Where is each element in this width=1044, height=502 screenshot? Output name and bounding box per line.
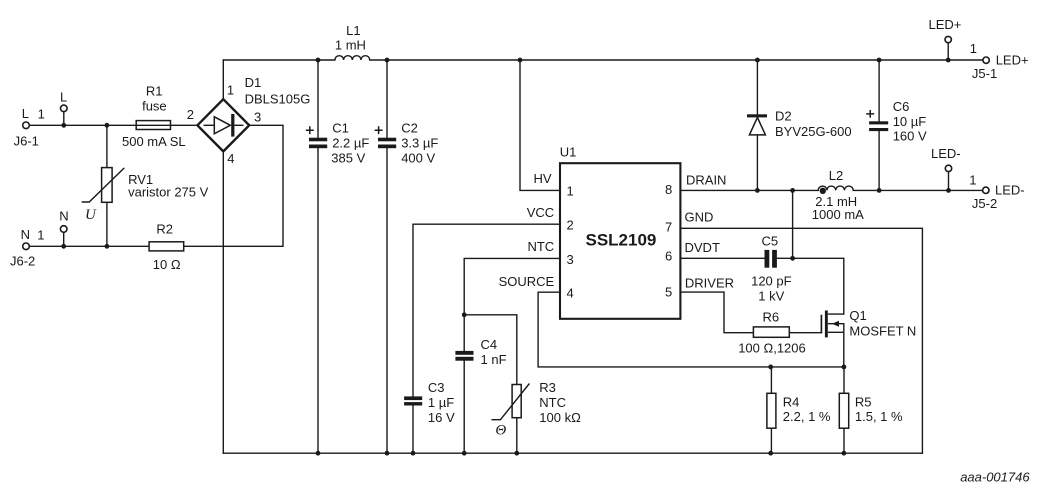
wire: bridge pin4 down to bottom rail [222, 151, 224, 453]
resistor R5 [839, 393, 903, 428]
wire: upper L node drop [63, 112, 65, 126]
svg-text:R1: R1 [146, 83, 163, 98]
svg-text:400 V: 400 V [401, 150, 435, 165]
wire: D2 branch top [756, 60, 758, 114]
svg-text:5: 5 [665, 285, 672, 300]
svg-text:varistor 275 V: varistor 275 V [128, 185, 209, 200]
wire: C5 right to MOSFET drain [777, 258, 844, 314]
wire: R2 right to bridge pin3 riser [184, 125, 283, 246]
wire: L input horizontal [29, 124, 197, 126]
wire: top rail right of L1 [370, 59, 983, 61]
capacitor C3 [404, 380, 455, 425]
svg-text:L: L [60, 90, 67, 105]
svg-text:R6: R6 [763, 310, 780, 325]
resistor R4 [767, 393, 831, 428]
svg-text:100 kΩ: 100 kΩ [539, 410, 581, 425]
resistor R2 [149, 221, 184, 272]
svg-text:DRIVER: DRIVER [685, 276, 734, 291]
svg-text:SOURCE: SOURCE [499, 274, 555, 289]
wire: node down to C4 [463, 315, 465, 351]
svg-text:500 mA SL: 500 mA SL [122, 134, 186, 149]
transistor Q1 (MOSFET N) [821, 308, 916, 339]
svg-text:4: 4 [227, 151, 234, 166]
svg-text:1 mH: 1 mH [335, 38, 366, 53]
wire: C4 to bottom rail [463, 361, 465, 454]
terminal J6-2 (N) [10, 227, 44, 268]
svg-text:1: 1 [567, 184, 574, 199]
wire: VCC pin2 to C3 branch [413, 224, 560, 396]
wire: R4 top [770, 367, 772, 393]
svg-text:2.2, 1 %: 2.2, 1 % [783, 409, 831, 424]
svg-text:2: 2 [187, 107, 194, 122]
op-amp U1 (IC SSL2109) [499, 145, 734, 319]
svg-text:BYV25G-600: BYV25G-600 [775, 124, 852, 139]
svg-text:DVDT: DVDT [685, 240, 720, 255]
svg-text:160 V: 160 V [893, 129, 927, 144]
svg-text:Θ: Θ [495, 423, 506, 439]
wire: top rail left of L1 [223, 59, 335, 61]
svg-text:N: N [21, 227, 30, 242]
svg-text:1 nF: 1 nF [481, 352, 507, 367]
svg-text:C2: C2 [401, 121, 418, 136]
capacitor C6 [866, 99, 927, 144]
wire: R4 bottom [770, 428, 772, 453]
wire: HV branch to pin1 [520, 60, 560, 190]
capacitor C4 [455, 337, 506, 367]
svg-text:LED+: LED+ [996, 52, 1029, 67]
wire: R5 bottom [843, 428, 845, 453]
svg-text:NTC: NTC [527, 239, 554, 254]
diode D2 [747, 109, 852, 139]
svg-text:LED-: LED- [931, 146, 961, 161]
svg-text:C5: C5 [762, 234, 779, 249]
svg-text:120 pF: 120 pF [751, 274, 792, 289]
wire: node to R3 top [464, 315, 517, 385]
wire: MOSFET source down to source bus [843, 324, 845, 367]
svg-text:fuse: fuse [142, 99, 167, 114]
svg-text:aaa-001746: aaa-001746 [960, 469, 1030, 484]
svg-text:U1: U1 [560, 145, 577, 160]
wire: C2 branch [386, 60, 388, 138]
svg-text:C3: C3 [428, 380, 445, 395]
wire: GND pin7 right and down to rail [680, 228, 922, 453]
svg-text:NTC: NTC [539, 395, 566, 410]
svg-text:J5-1: J5-1 [972, 66, 997, 81]
svg-text:Q1: Q1 [849, 308, 866, 323]
svg-text:100 Ω,1206: 100 Ω,1206 [738, 341, 806, 356]
svg-text:1: 1 [37, 227, 44, 242]
svg-text:7: 7 [665, 220, 672, 235]
svg-text:D1: D1 [245, 75, 262, 90]
svg-text:GND: GND [685, 209, 714, 224]
wire: C6 branch top [878, 60, 880, 121]
wire: NTC pin3 left and down [464, 258, 560, 314]
node LED+ [929, 17, 962, 43]
wire: C6 branch bottom [878, 131, 880, 190]
terminal J5-2 (LED-) [969, 172, 1024, 211]
svg-text:SSL2109: SSL2109 [586, 231, 657, 250]
wire: DVDT pin6 to C5 [680, 257, 764, 259]
terminal J6-1 (L) [14, 106, 45, 148]
wire: N input horizontal [29, 245, 149, 247]
svg-text:LED-: LED- [995, 183, 1025, 198]
svg-text:L2: L2 [829, 168, 843, 183]
wire: upper N node drop [63, 232, 65, 246]
wire: R6 to gate [789, 332, 821, 334]
inductor L1 [335, 23, 370, 60]
svg-text:10 Ω: 10 Ω [153, 257, 181, 272]
svg-text:J6-1: J6-1 [14, 133, 39, 148]
svg-text:J6-2: J6-2 [10, 254, 35, 269]
wire: LED+ node drop [947, 43, 949, 60]
capacitor C5 [751, 234, 792, 304]
svg-text:C4: C4 [481, 337, 498, 352]
inductor L2 [812, 168, 864, 222]
svg-text:3.3 µF: 3.3 µF [401, 136, 438, 151]
wire: LED- node drop [948, 172, 950, 191]
svg-text:R5: R5 [855, 394, 872, 409]
svg-text:6: 6 [665, 249, 672, 264]
node LED- [931, 146, 961, 172]
wire: C3 to bottom rail [412, 406, 414, 454]
wire: bottom rail [223, 452, 922, 454]
wire: SOURCE pin4 left down and right [538, 292, 844, 367]
capacitor C2 [375, 121, 439, 166]
svg-text:DRAIN: DRAIN [686, 172, 726, 187]
svg-text:C6: C6 [893, 99, 910, 114]
wire: C1 branch [317, 60, 319, 138]
thermistor R3 (NTC) [491, 380, 581, 439]
svg-text:1: 1 [970, 41, 977, 56]
svg-text:C1: C1 [332, 121, 349, 136]
svg-text:3: 3 [254, 109, 261, 124]
svg-text:10 µF: 10 µF [893, 114, 927, 129]
resistor R1 (fuse) [122, 83, 186, 149]
wire: R3 bottom to rail [516, 418, 518, 454]
svg-text:R2: R2 [156, 221, 173, 236]
svg-text:385 V: 385 V [331, 150, 365, 165]
resistor R6 [738, 310, 806, 356]
svg-text:DBLS105G: DBLS105G [245, 92, 311, 107]
wire: DRIVER pin5 to R6 [680, 292, 753, 333]
svg-text:R4: R4 [783, 394, 800, 409]
wire: drain sense riser [792, 190, 794, 258]
svg-text:1: 1 [969, 172, 976, 187]
svg-text:16 V: 16 V [428, 410, 455, 425]
svg-text:MOSFET N: MOSFET N [849, 323, 916, 338]
svg-text:3: 3 [567, 252, 574, 267]
wire: L2 right to LED- terminal [853, 189, 982, 191]
wire: RV1 branch top [106, 125, 108, 167]
svg-text:N: N [59, 208, 68, 223]
svg-text:LED+: LED+ [929, 17, 962, 32]
svg-text:U: U [85, 207, 97, 223]
wire: bridge pin1 to top rail [222, 60, 224, 99]
svg-text:1 kV: 1 kV [758, 289, 784, 304]
svg-text:1.5, 1 %: 1.5, 1 % [855, 409, 903, 424]
svg-text:2: 2 [567, 218, 574, 233]
svg-text:1: 1 [38, 107, 45, 122]
bridge rectifier D1 [187, 75, 311, 166]
terminal J5-1 (LED+) [970, 41, 1029, 81]
wire: RV1 branch bottom [106, 202, 108, 246]
svg-text:J5-2: J5-2 [972, 196, 997, 211]
svg-text:2.2 µF: 2.2 µF [332, 136, 369, 151]
svg-text:D2: D2 [775, 109, 792, 124]
node N [59, 208, 68, 232]
capacitor C1 [306, 121, 370, 166]
svg-text:L1: L1 [346, 23, 360, 38]
varistor RV1 [82, 168, 209, 223]
svg-text:R3: R3 [539, 380, 556, 395]
wire: D2 branch bottom [756, 135, 758, 191]
wire: DRAIN pin8 to L2 [680, 189, 818, 191]
node L [60, 90, 67, 112]
svg-text:VCC: VCC [527, 205, 554, 220]
svg-text:1 µF: 1 µF [428, 395, 454, 410]
svg-text:4: 4 [567, 286, 574, 301]
svg-text:8: 8 [665, 182, 672, 197]
svg-text:1000 mA: 1000 mA [812, 207, 864, 222]
svg-text:1: 1 [227, 83, 234, 98]
svg-text:HV: HV [533, 171, 551, 186]
wire: R5 top [843, 367, 845, 393]
svg-text:L: L [22, 106, 29, 121]
